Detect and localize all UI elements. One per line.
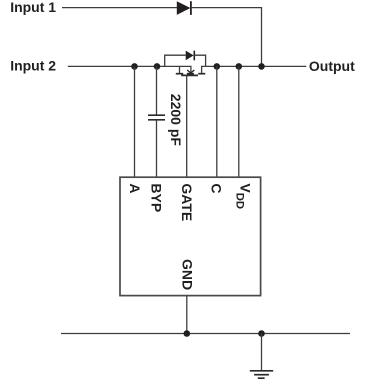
junction: VDD tap: [236, 63, 243, 70]
wire: Input 2 horizontal to MOSFET body stub: [68, 66, 191, 72]
svg-text:Input 2: Input 2: [10, 58, 56, 74]
junction: ground symbol tap: [258, 330, 265, 337]
capacitor C1: [148, 115, 165, 120]
junction: pin C tap: [214, 63, 221, 70]
ground symbol: [250, 334, 273, 379]
wire: BYP to capacitor top: [156, 66, 158, 115]
wire: pin C: [216, 66, 218, 177]
junction: GND tap on rail: [184, 330, 191, 337]
wire: loop to body diode (anode side): [165, 55, 186, 66]
wire: GND pin to ground rail: [186, 296, 188, 334]
body arrow: [187, 70, 194, 74]
svg-text:2200 pF: 2200 pF: [168, 94, 184, 147]
diode D2 (body diode): [186, 51, 195, 61]
wire: capacitor bottom to BYP pin: [156, 120, 158, 177]
junction: pin A tap: [131, 63, 138, 70]
channel / gate line: [181, 74, 198, 76]
junction: output / diode branch: [258, 63, 265, 70]
svg-text:GATE: GATE: [179, 183, 195, 221]
wire: diode cathode to top-right corner, down to output node: [191, 8, 262, 67]
source plate: [176, 73, 183, 75]
wire: pin VDD: [238, 66, 240, 177]
wire: MOSFET drain segment to output: [202, 66, 307, 73]
op-amp U1 (IC body): [120, 177, 261, 295]
svg-text:C: C: [208, 183, 224, 193]
transistor Q1 (MOSFET switch): [176, 66, 206, 75]
svg-text:VDD: VDD: [234, 183, 254, 209]
junction: BYP / capacitor tap: [154, 63, 161, 70]
svg-text:Output: Output: [309, 58, 355, 74]
svg-text:BYP: BYP: [149, 183, 165, 212]
wire: Input 1 to diode anode: [62, 7, 177, 9]
source stub: [179, 66, 181, 73]
body plate: [187, 73, 194, 75]
drain plate: [198, 73, 205, 75]
svg-text:GND: GND: [179, 259, 195, 290]
wire: gate to GATE pin: [186, 75, 188, 177]
svg-text:A: A: [127, 183, 143, 193]
wire: body diode cathode to drain segment: [194, 55, 205, 66]
diode D1: [177, 1, 191, 15]
wire: pin A: [134, 66, 136, 177]
ground rail wire: [61, 333, 350, 335]
svg-text:Input 1: Input 1: [10, 0, 56, 15]
